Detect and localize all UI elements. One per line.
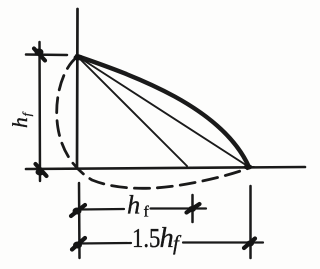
- svg-text:hf: hf: [8, 111, 34, 128]
- svg-text:h: h: [127, 190, 140, 220]
- svg-text:h: h: [160, 223, 174, 254]
- svg-text:f: f: [173, 231, 182, 255]
- svg-text:1.5: 1.5: [132, 224, 160, 253]
- svg-text:f: f: [144, 204, 150, 221]
